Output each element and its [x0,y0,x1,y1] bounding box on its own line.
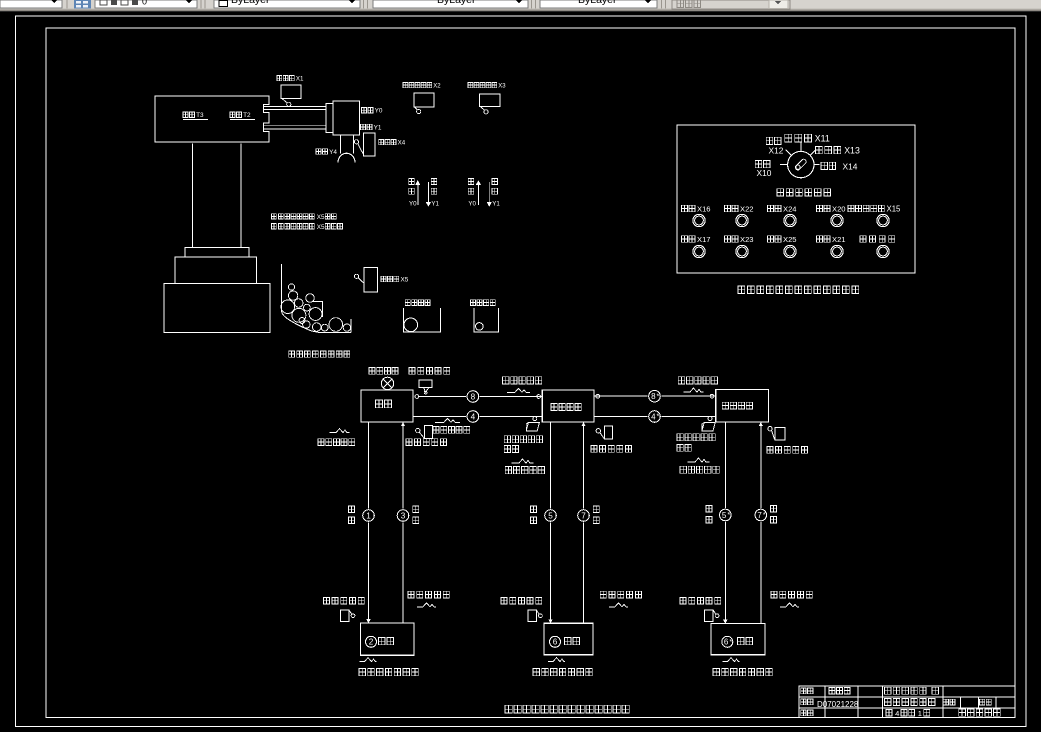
label X10 manual [755,161,770,168]
label ascend col2 [593,506,599,513]
svg-text:X23: X23 [740,235,754,244]
title block texts row3 [801,710,813,716]
right-move solenoid symbol [435,418,460,422]
solenoid down label mid [512,459,534,463]
step circle 4* [648,410,662,424]
layers icon button [74,0,91,9]
svg-text:Y1: Y1 [374,125,382,132]
svg-text:*: * [657,393,660,400]
rotary selector switch [788,151,814,177]
title block grid [799,686,1015,718]
step circle 4 [466,410,480,424]
toolbar grip [363,0,364,9]
limit switch X2 big-ball-right [414,93,434,107]
legend up arrow Y0 group1 [409,179,415,185]
button row1 labels [682,205,696,212]
svg-text:X24: X24 [783,204,797,213]
step circle 5* [718,508,732,522]
release box step6* [711,624,765,655]
label X4 [379,140,396,145]
label big-ball right limit switch [504,436,542,443]
note X5 action line 1 [272,214,277,219]
upper limit switch symbol col1 [416,428,420,432]
svg-text:2: 2 [369,638,374,647]
control panel box [677,125,915,273]
selector ticks [780,143,820,165]
label suction head Y4 [316,149,327,155]
svg-text:X17: X17 [697,235,711,244]
caption mechanical structure [289,351,350,357]
svg-text:X3: X3 [498,83,506,89]
svg-text:X21: X21 [832,235,846,244]
label X3 [468,83,497,88]
label X13 single cycle [816,146,841,153]
label X5 [381,276,399,282]
big ball container [403,308,440,332]
wire down col1 [368,422,370,623]
limit switch X5 [364,268,378,293]
svg-text:8: 8 [651,392,656,401]
label upper limit switch col1 [406,439,446,446]
limit switch X3 small-ball-right [480,94,501,107]
toolbar grip [661,0,662,9]
svg-text:X11: X11 [815,134,830,144]
svg-text:3: 3 [401,511,406,520]
wire up col2 [583,422,585,623]
svg-text:X12: X12 [769,145,784,155]
label descend col1 [349,506,355,513]
selector knob [795,158,808,171]
label T2 travel right [230,112,241,118]
label left limit switch [409,368,450,375]
suction cup [338,153,355,162]
svg-text:X22: X22 [740,204,754,213]
layer combobox [95,0,197,8]
svg-text:X16: X16 [697,204,711,213]
svg-text:T2: T2 [243,112,251,119]
label small ball container [470,300,495,306]
wire down col2 [550,422,552,623]
wire up col1 [402,422,404,623]
label operation mode select [777,189,831,196]
plot style combobox disabled [672,0,790,9]
title block texts row2 [801,699,813,705]
label small-ball right limit switch [677,434,715,441]
release box step6 [544,623,593,654]
clamp-release solenoid col3 [723,658,740,662]
svg-text:Y0: Y0 [375,108,383,115]
svg-text:7: 7 [581,511,586,520]
button row2 push buttons [693,245,705,257]
ball pile [288,291,297,300]
legend down arrow Y1 group1 [427,182,429,205]
ascend solenoid label col3 [771,591,812,598]
svg-text:4: 4 [471,412,476,421]
toolbar separator [67,0,68,9]
big ball [404,318,418,332]
label lower limit switch col2 [501,597,542,604]
clamp-release solenoid col1 [360,658,377,662]
limit switch X1 [281,85,301,99]
button row1 push buttons [693,214,705,226]
wire step4 right-move [413,416,542,418]
svg-text:ByLayer: ByLayer [578,0,617,6]
pedestal tier 2 [175,257,257,284]
svg-text:1: 1 [366,511,371,520]
step circle 3 [396,509,410,523]
svg-text:*: * [763,512,766,519]
svg-text:7: 7 [757,511,762,520]
svg-text:Y0: Y0 [468,201,476,208]
svg-text:X4: X4 [398,140,406,147]
small ball container [474,308,498,332]
pedestal column [193,144,242,248]
svg-text:T3: T3 [196,112,204,119]
lower rail [264,125,326,129]
solenoid down label right [688,458,710,462]
label X2 [403,83,432,88]
piston shaft [339,135,341,153]
lower limit switch symbol col1 [340,610,349,622]
svg-text:X15: X15 [887,204,902,213]
svg-text:5: 5 [722,511,727,520]
label upper limit switch col2 [591,446,631,453]
carriage main block [333,101,359,135]
svg-text:X1: X1 [296,76,304,83]
legend down arrow Y1 group2 [488,182,490,205]
svg-text:X10: X10 [757,168,772,178]
wire step8* left-move small [594,395,716,397]
upper limit switch symbol col2 [596,429,600,433]
lineweight combobox ByLayer [540,0,657,8]
clamp-release solenoid col2 [548,658,565,662]
svg-text:*: * [729,639,732,646]
svg-text:1: 1 [918,709,922,718]
svg-text:Y1: Y1 [431,201,439,208]
ascend solenoid label col1 [408,591,449,598]
ascend solenoid label col2 [600,591,641,598]
label upper limit switch col3 [767,447,807,454]
step circle 7* [754,508,768,522]
svg-text:*: * [727,512,730,519]
svg-text:4: 4 [651,412,656,421]
svg-text:ByLayer: ByLayer [437,0,476,6]
toolbar combo undo-list [0,0,62,8]
small ball [476,323,484,331]
pedestal base [164,284,270,333]
origin box [361,390,413,422]
small-ball-right limit switch symbol [708,417,712,421]
label X12 single step [766,137,781,144]
solenoid down label left [330,429,350,433]
upper rail [264,106,326,109]
legend up arrow Y0 group2 [468,179,474,185]
wire step4* right-move small [594,416,716,418]
clamp box step2 [361,623,415,655]
wire down col3 [724,422,726,624]
svg-text:*: * [657,414,660,421]
small-ball-right box [716,389,769,422]
svg-text:Y0: Y0 [409,201,417,208]
pedestal tier 1 [185,248,249,257]
big-ball-right limit switch symbol [533,417,537,421]
svg-text:5: 5 [548,511,553,520]
label down Y1 [361,124,372,130]
lower limit switch symbol col2 [528,610,537,622]
color combobox ByLayer [214,0,360,8]
svg-text:6: 6 [724,638,729,647]
svg-text:D07021228: D07021228 [817,700,859,709]
label origin indicator [369,368,398,375]
caption operation panel layout [738,286,859,293]
ball chute [281,264,351,333]
toolbar grip [201,0,202,9]
left limit switch symbol [419,380,432,387]
svg-text:X5: X5 [317,224,325,231]
label T3 travel left [183,112,194,118]
origin indicator lamp [381,377,393,389]
lower limit switch symbol col3 [705,610,714,622]
svg-text:X14: X14 [843,162,858,172]
label X1 [277,76,294,81]
button row2 labels [682,236,696,243]
title block texts row1 [801,688,813,694]
big-ball-right box [542,390,594,422]
toolbar grip [531,0,532,9]
label ascend col1 [413,506,419,513]
arm body box [155,96,269,142]
svg-text:4: 4 [895,709,899,718]
label lower limit switch col1 [323,597,364,604]
svg-text:0: 0 [142,0,147,7]
label X11 return origin [785,134,812,142]
step circle 8* [648,389,662,403]
svg-text:6: 6 [553,638,558,647]
svg-text:ByLayer: ByLayer [231,0,270,6]
application toolbar strip [0,0,1041,10]
svg-text:X13: X13 [844,146,860,156]
carriage narrow block [326,103,333,132]
svg-text:X2: X2 [433,83,441,89]
caption action structure diagram [505,705,629,713]
step circle 1 [362,509,376,523]
step circle 7 [577,509,591,523]
label left-move solenoid [503,377,542,384]
note X5 action line 2 [272,224,277,229]
svg-text:X25: X25 [783,235,797,244]
label up Y0 [362,108,373,114]
limit switch X4 [364,133,376,156]
svg-text:X5: X5 [317,214,325,221]
label descend col3 [706,506,712,513]
label ascend col3 [771,506,777,513]
wire up col3 [760,422,762,624]
linetype combobox ByLayer [373,0,528,8]
label X14 continuous [821,162,836,169]
label descend col2 [531,506,537,513]
wire step8 left-move [419,396,542,398]
label right-move solenoid [433,427,470,434]
svg-text:Y4: Y4 [329,149,337,156]
step circle 8 [466,390,480,404]
label left-move solenoid 2 [678,377,717,384]
step circle 5 [544,509,558,523]
label lower limit switch col3 [680,597,721,604]
upper limit switch symbol col3 [768,427,772,431]
svg-text:Y1: Y1 [492,201,500,208]
svg-text:X20: X20 [832,204,846,213]
svg-text:X5: X5 [401,277,409,284]
svg-text:8: 8 [471,392,476,401]
label big ball container [405,300,430,306]
